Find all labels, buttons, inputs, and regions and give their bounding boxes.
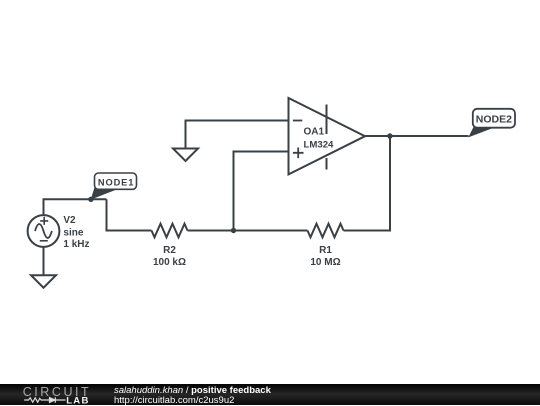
svg-text:LM324: LM324 xyxy=(304,139,335,150)
V2 plus sign xyxy=(40,217,48,225)
svg-text:10 MΩ: 10 MΩ xyxy=(310,257,340,268)
wire from R1 right up to op-amp output xyxy=(344,136,391,231)
V2 sine wave xyxy=(35,224,52,238)
node NODE2 callout xyxy=(468,109,515,138)
resistor R1 xyxy=(308,224,344,238)
V2 minus sign xyxy=(40,240,48,242)
wire from V2 top to NODE1 corner xyxy=(44,199,107,215)
svg-text:OA1: OA1 xyxy=(304,127,325,138)
CircuitLab logo schematic squiggle (resistor + diode) xyxy=(24,397,65,402)
svg-text:100 kΩ: 100 kΩ xyxy=(153,257,186,268)
op-amp inverting input minus sign xyxy=(293,120,302,122)
op-amp labels OA1 LM324 xyxy=(304,127,335,151)
node NODE1 callout xyxy=(91,173,137,200)
op-amp positive supply pin line xyxy=(326,105,328,135)
junction node at op-amp output xyxy=(387,133,392,138)
wire non-inverting input to feedback node xyxy=(234,152,289,231)
R2 value labels xyxy=(153,245,186,268)
ground (below V2) xyxy=(31,275,56,288)
svg-text:NODE1: NODE1 xyxy=(98,177,135,187)
junction node NODE1 xyxy=(88,197,93,202)
R1 value labels xyxy=(310,245,340,268)
svg-text:NODE2: NODE2 xyxy=(476,113,512,125)
resistor R2 xyxy=(152,224,188,238)
wire V2 bottom to ground xyxy=(43,247,45,275)
voltage source V2 circle xyxy=(28,215,60,247)
bottom CircuitLab watermark bar xyxy=(0,384,540,405)
junction node between R2 and R1 (feedback tap) xyxy=(231,228,236,233)
CircuitLab logo wordmark CIRCUIT xyxy=(23,385,92,399)
wire op-amp output to NODE2 xyxy=(365,135,469,137)
wire from NODE1 corner down to R2 left lead xyxy=(107,199,152,230)
svg-text:sine: sine xyxy=(63,227,83,238)
svg-text:R1: R1 xyxy=(319,245,332,256)
wire between R2 and R1 xyxy=(188,230,308,232)
svg-text:V2: V2 xyxy=(63,215,76,226)
op-amp negative supply pin line xyxy=(326,158,328,170)
watermark url line xyxy=(114,395,234,406)
op-amp OA1 triangle xyxy=(289,98,366,174)
svg-text:1 kHz: 1 kHz xyxy=(63,239,89,250)
V2 labels xyxy=(63,215,89,250)
svg-text:R2: R2 xyxy=(163,245,176,256)
ground (op-amp inverting input) xyxy=(173,149,198,162)
op-amp non-inverting input plus sign xyxy=(293,148,304,159)
CircuitLab logo wordmark LAB xyxy=(66,395,89,406)
watermark author / title line xyxy=(114,385,271,396)
wire inverting input to ground xyxy=(186,121,289,149)
